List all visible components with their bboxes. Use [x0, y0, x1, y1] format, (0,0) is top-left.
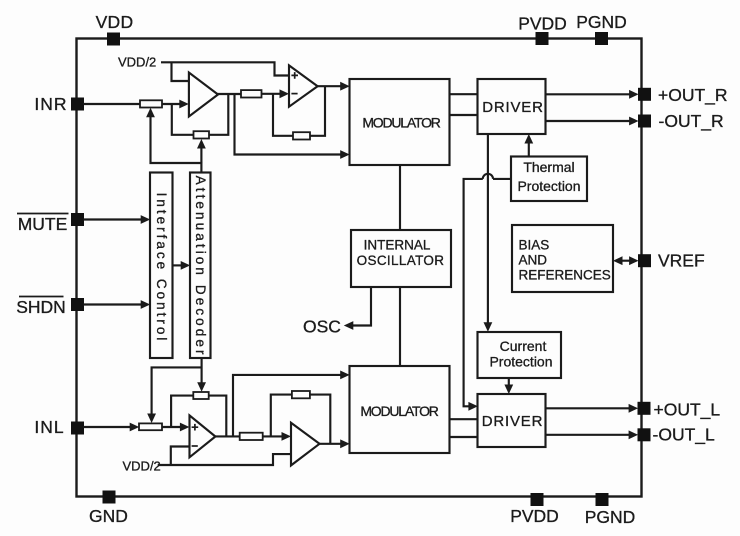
wire attenuation control to feedback resistor (arrow up)	[197, 139, 206, 163]
svg-text:INL: INL	[34, 417, 64, 437]
pad VREF	[638, 254, 651, 267]
pad INL	[71, 422, 84, 435]
svg-text:PGND: PGND	[576, 12, 627, 32]
svg-text:PGND: PGND	[585, 507, 636, 527]
resistor feedback L1	[193, 392, 208, 399]
svg-text:Thermal: Thermal	[523, 159, 574, 175]
svg-text:SHDN: SHDN	[16, 297, 66, 317]
wire series resistor to L2 with arrow	[263, 432, 291, 441]
resistor input L channel	[139, 423, 162, 430]
wire A2 output to modulator upper input (arrow)	[317, 82, 350, 91]
resistor series R channel	[241, 90, 262, 97]
pad GND bottom	[103, 491, 116, 504]
wire series resistor to A2 inverting input with arrow	[262, 89, 290, 98]
wire VDD/2 distribution	[161, 62, 289, 81]
svg-text:VDD/2: VDD/2	[118, 54, 156, 69]
wire thermal protection to driver L with hop over crossing	[464, 174, 511, 407]
svg-text:MUTE: MUTE	[18, 214, 68, 234]
pad -OUT_R	[638, 115, 651, 128]
svg-text:OSC: OSC	[303, 317, 341, 337]
wire MUTE to interface control (arrow)	[84, 215, 151, 224]
svg-text:AND: AND	[519, 253, 548, 268]
svg-text:REFERENCES: REFERENCES	[519, 268, 611, 283]
block DRIVER right	[478, 79, 546, 134]
svg-text:Attenuation Decoder: Attenuation Decoder	[193, 176, 208, 358]
pad +OUT_L	[638, 402, 651, 415]
wire SHDN to interface control (arrow)	[84, 300, 151, 309]
svg-text:Protection: Protection	[489, 354, 552, 370]
block Interface Control (vertical)	[150, 173, 173, 359]
svg-text:-OUT_R: -OUT_R	[659, 111, 724, 132]
wire A2 feedback loop	[273, 86, 325, 136]
block Attenuation Decoder (vertical)	[190, 173, 211, 359]
svg-text:VREF: VREF	[658, 251, 705, 271]
wire driver R to -OUT_R pad (arrow)	[546, 117, 639, 126]
wire internal oscillator to modulator L	[399, 287, 401, 366]
wire L1 feedback loop	[171, 396, 226, 437]
wire L2 output to modulator L lower input (arrow)	[319, 439, 350, 448]
wire VREF double arrow	[613, 256, 639, 265]
wire A1 output to modulator lower input (arrow)	[235, 94, 350, 159]
svg-text:Protection: Protection	[517, 178, 580, 194]
wire resistor to amp A1 with arrow	[162, 100, 189, 109]
pad VDD	[107, 33, 120, 46]
pad +OUT_R	[638, 88, 651, 101]
op-amp L1 (left channel, + upper / - lower)	[190, 415, 216, 457]
wire attenuation decoder to feedback resistor L1 (arrow down)	[197, 358, 206, 392]
label SHDN (with overline)	[16, 297, 66, 318]
svg-text:GND: GND	[89, 506, 128, 526]
wires modulator R to driver R	[450, 94, 478, 115]
pad PVDD bottom	[531, 493, 544, 506]
svg-text:MODULATOR: MODULATOR	[360, 403, 438, 419]
svg-text:+OUT_R: +OUT_R	[658, 85, 728, 106]
op-amp L2 (left channel output amp)	[291, 423, 320, 466]
block DRIVER left (bottom)	[478, 394, 546, 447]
block MODULATOR left (bottom)	[350, 366, 450, 453]
wire driver L to -OUT_L pad (arrow)	[546, 430, 639, 439]
resistor feedback A2	[293, 132, 310, 139]
svg-text:+OUT_L: +OUT_L	[654, 399, 721, 420]
resistor feedback A1	[194, 131, 210, 138]
label MUTE (with overline)	[17, 214, 69, 235]
pad MUTE	[71, 213, 84, 226]
op-amp A2 (right channel, + upper / - lower)	[289, 65, 318, 106]
wire L1 output to modulator L upper input (arrow)	[233, 371, 350, 437]
svg-text:BIAS: BIAS	[519, 238, 550, 253]
svg-text:INTERNAL: INTERNAL	[364, 238, 431, 253]
pad PVDD top	[536, 32, 549, 45]
svg-text:Current: Current	[500, 338, 547, 354]
block Thermal Protection	[511, 157, 587, 202]
wire VDD/2 bottom distribution	[158, 447, 291, 466]
arrow into driver L left edge	[468, 402, 478, 411]
wire INR to input resistor	[84, 103, 141, 105]
pad SHDN	[71, 298, 84, 311]
wire oscillator to OSC output (arrow left)	[344, 287, 371, 330]
wire modulator R to internal oscillator	[399, 165, 401, 230]
wire attenuation branch to input resistor L (arrow down)	[147, 367, 201, 423]
pad INR	[71, 98, 84, 111]
resistor feedback L2	[292, 391, 310, 398]
svg-text:-OUT_L: -OUT_L	[653, 425, 716, 446]
outer chip border	[77, 39, 642, 497]
wire A1 output to series resistor	[216, 93, 241, 95]
svg-text:PVDD: PVDD	[518, 14, 567, 34]
op-amp A1 (right channel input amp)	[189, 73, 218, 117]
svg-text:OSCILLATOR: OSCILLATOR	[357, 253, 445, 268]
svg-text:Interface Control: Interface Control	[154, 193, 169, 344]
svg-text:VDD/2: VDD/2	[123, 459, 161, 474]
wires modulator L to driver L	[450, 419, 478, 437]
wire INL to input resistor (arrow)	[84, 423, 140, 432]
wire driver R bottom to current protection (arrow down)	[484, 134, 493, 332]
wire interface control to attenuation decoder (arrow)	[173, 261, 191, 270]
svg-text:MODULATOR: MODULATOR	[362, 115, 440, 131]
wire driver L to +OUT_L pad (arrow)	[546, 404, 639, 413]
wire L2 feedback loop	[271, 395, 331, 444]
wire driver R to +OUT_R pad (arrow)	[546, 90, 639, 99]
block BIAS AND REFERENCES	[512, 225, 613, 292]
pad PGND bottom	[596, 493, 609, 506]
svg-text:PVDD: PVDD	[510, 506, 559, 526]
block INTERNAL OSCILLATOR	[351, 230, 451, 287]
wire A1 feedback loop	[172, 94, 229, 135]
block Current Protection	[478, 332, 562, 378]
resistor input R channel	[140, 100, 162, 107]
wire resistor to amp L1 with arrow	[162, 423, 189, 432]
wire L1 output to series resistor	[214, 435, 240, 437]
wire current protection to driver L top (arrow down)	[504, 378, 513, 394]
resistor series L channel	[240, 433, 263, 440]
pad PGND top	[595, 32, 608, 45]
block MODULATOR right	[350, 79, 450, 165]
svg-text:DRIVER: DRIVER	[482, 413, 543, 430]
pad -OUT_L	[638, 428, 651, 441]
wire thermal protection to driver R (arrow up)	[524, 134, 533, 157]
svg-text:INR: INR	[34, 94, 67, 114]
wire attenuation control to input resistor (arrow up)	[146, 108, 201, 173]
svg-text:VDD: VDD	[96, 12, 134, 32]
svg-text:DRIVER: DRIVER	[482, 99, 543, 116]
